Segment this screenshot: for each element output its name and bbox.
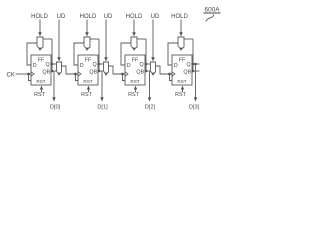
wire Q3 output [145,63,150,65]
up/down mux M1B output arrowhead [58,73,61,76]
wire QB3 output [145,70,150,72]
wire M2A input from Q (top) [90,38,99,40]
wire Q1 output [51,63,56,65]
svg-text:D: D [127,63,131,69]
wire Q2 output [98,63,103,65]
svg-text:RST: RST [83,79,92,84]
wire output tap D[3] vertical [195,64,197,99]
hold mux M2A output arrowhead [85,48,88,51]
svg-text:UD: UD [57,14,66,20]
svg-text:RST: RST [177,79,186,84]
arrowhead output D[1] [100,97,103,101]
wire QB1 output [51,70,56,72]
svg-text:UD: UD [104,14,113,20]
hold mux M3A output arrowhead [132,48,135,51]
RST input arrow of FF2 [88,88,90,92]
FF4 clock input triangle [172,72,175,76]
junction dot QB4 [192,70,195,73]
UD select arrow into M3B [152,20,154,59]
svg-text:QB: QB [89,70,97,76]
wire output tap D[2] vertical [149,71,151,99]
wire vertical Q2 node to hold mux [98,39,100,71]
svg-text:600A: 600A [205,7,221,14]
svg-text:D[1]: D[1] [97,105,108,111]
flip-flop FF3 box [125,55,145,85]
wire output tap D[1] vertical [101,71,103,99]
hold mux M4A [178,37,184,50]
svg-text:FF: FF [38,58,45,64]
svg-text:D: D [174,63,178,69]
svg-text:RST: RST [128,92,139,98]
flip-flop FF4 box [172,55,192,85]
FF2 clock input triangle [78,72,81,76]
wire M4A input from Q (top) [184,38,193,40]
wire Q4 output [192,63,200,65]
svg-text:FF: FF [85,58,92,64]
arrowhead output D[3] [194,97,197,101]
hold mux M1A [37,37,43,50]
HOLD select arrow into M1A [39,20,41,34]
up/down mux M2B output arrowhead [105,73,108,76]
svg-text:QB: QB [42,70,50,76]
wire output tap D[0] vertical [53,71,55,99]
svg-text:QB: QB [183,70,191,76]
svg-text:RST: RST [175,92,186,98]
HOLD select arrow into M3A [133,20,135,34]
wire M3A input from Q (top) [137,38,146,40]
svg-text:HOLD: HOLD [171,14,188,20]
RST input arrow of FF4 [182,88,184,92]
junction dot FF3 clock [121,73,124,76]
up/down mux M3B [151,62,156,75]
svg-text:D[3]: D[3] [189,105,200,111]
flip-flop FF1 box [31,55,51,85]
junction dot Q4 [192,63,195,66]
wire clock branch stub FF3 [123,74,126,81]
svg-text:Q: Q [92,62,96,68]
svg-text:D: D [80,63,84,69]
svg-text:HOLD: HOLD [31,14,48,20]
junction dot QB1 [51,70,54,73]
svg-text:D[0]: D[0] [50,105,61,111]
HOLD select arrow into M2A [86,20,88,34]
FF1 clock input triangle [31,72,34,76]
svg-text:FF: FF [132,58,139,64]
svg-text:QB: QB [136,70,144,76]
wire M1B output to FF2 clock [62,66,79,74]
up/down mux M3B output arrowhead [152,73,155,76]
UD select arrow into M2B [105,20,107,59]
wire M3B output to FF4 clock [156,66,173,74]
HOLD select arrow into M4A [180,20,182,34]
wire clock branch stub FF4 [170,74,173,81]
svg-text:RST: RST [34,92,45,98]
svg-text:RST: RST [130,79,139,84]
wire M1A input from Q (top) [43,38,52,40]
svg-text:HOLD: HOLD [80,14,97,20]
junction dot QB3 [145,70,148,73]
svg-text:Q: Q [139,62,143,68]
svg-text:D: D [33,63,37,69]
svg-text:Q: Q [45,62,49,68]
figure label 600A [204,7,221,14]
FF3 clock input triangle [125,72,128,76]
wire M3A output to D input of FF3 [121,43,131,65]
wire M1A output to D input of FF1 [27,43,37,65]
junction dot Q3 [145,63,148,66]
svg-text:UD: UD [151,14,160,20]
wire vertical Q4 node to hold mux [192,39,194,71]
hold mux M2A [84,37,90,50]
svg-text:RST: RST [36,79,45,84]
svg-text:FF: FF [179,58,186,64]
up/down mux M2B [104,62,109,75]
hold mux M3A [131,37,137,50]
hold mux M1A output arrowhead [38,48,41,51]
junction dot QB2 [98,70,101,73]
wire clock branch stub FF2 [76,74,79,81]
figure pointer squiggle [206,15,214,22]
svg-text:HOLD: HOLD [126,14,143,20]
junction dot Q2 [98,63,101,66]
wire QB2 output [98,70,103,72]
RST input arrow of FF3 [135,88,137,92]
flip-flop FF2 box [78,55,98,85]
svg-text:CK: CK [7,72,15,78]
wire CK to FF1 clock [16,73,32,75]
RST input arrow of FF1 [41,88,43,92]
junction dot Q1 [51,63,54,66]
wire M4A output to D input of FF4 [168,43,178,65]
wire vertical Q1 node to hold mux [51,39,53,71]
junction dot D[3] tap on Q4 [194,63,197,66]
arrowhead output D[0] [52,97,55,101]
up/down mux M1B [57,62,62,75]
svg-text:D[2]: D[2] [145,105,156,111]
junction dot FF2 clock [74,73,77,76]
wire M2A output to D input of FF2 [74,43,84,65]
arrowhead output D[2] [148,97,151,101]
wire clock branch stub FF1 [29,74,32,81]
wire QB4 output [192,70,200,72]
junction dot FF4 clock [168,73,171,76]
svg-text:RST: RST [81,92,92,98]
UD select arrow into M1B [58,20,60,59]
svg-text:Q: Q [186,62,190,68]
wire vertical Q3 node to hold mux [145,39,147,71]
hold mux M4A output arrowhead [179,48,182,51]
junction dot CK [27,73,30,76]
wire M2B output to FF3 clock [109,66,126,74]
